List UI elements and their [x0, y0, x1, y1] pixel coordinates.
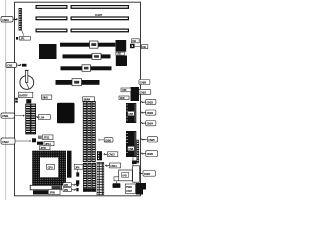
svg-text:CN23: CN23 [147, 111, 154, 115]
jumper JP1 [16, 36, 31, 40]
callout L6 [141, 137, 158, 142]
label under chip U1 [116, 52, 125, 56]
jumper dots [76, 183, 78, 186]
chip U2 [116, 56, 127, 67]
svg-text:CN5: CN5 [120, 96, 125, 100]
svg-text:KB: KB [142, 45, 146, 49]
jumper JP6 [76, 172, 79, 176]
SIMM socket 2 [88, 101, 91, 161]
svg-text:CN21: CN21 [140, 90, 147, 94]
PCI slot A [60, 43, 115, 47]
svg-text:JP13: JP13 [43, 136, 49, 140]
connector above cache [26, 99, 31, 103]
callout L5 [141, 121, 156, 126]
kb bios U7 [119, 170, 133, 181]
callout CN1 top left [1, 17, 18, 23]
ISA slot 2 left segment [36, 16, 68, 20]
label JP8 [49, 190, 61, 195]
SIMM socket 5 [88, 163, 91, 191]
callout CN2 left mid [6, 63, 22, 68]
jumper block pins above [97, 151, 102, 160]
svg-text:CN26: CN26 [147, 152, 154, 156]
jumper JP2 [32, 138, 36, 142]
svg-text:CN17: CN17 [126, 189, 132, 193]
label CN15 [125, 184, 135, 194]
callout L7 [141, 151, 158, 157]
connector on bar 6 [72, 79, 82, 86]
svg-text:CN14: CN14 [110, 164, 117, 168]
label kb ext [135, 45, 148, 49]
label JP5 [74, 164, 83, 172]
svg-text:JP14: JP14 [45, 142, 51, 146]
callout CN16 [99, 138, 113, 143]
svg-text:U10: U10 [117, 52, 122, 56]
callout L2 [139, 89, 151, 94]
port connector P1 [126, 103, 136, 123]
ISA slot 1 right segment [71, 5, 130, 9]
label above CPU [40, 146, 51, 150]
svg-text:BATRY: BATRY [19, 93, 28, 97]
wire down from port column [132, 157, 134, 166]
box U8 [133, 166, 140, 182]
label CN14 [105, 163, 121, 168]
svg-text:SIM1: SIM1 [42, 95, 48, 99]
port connector P2 [126, 131, 136, 157]
chipset U5 [57, 103, 75, 124]
connector CN on slot A [90, 41, 99, 48]
callout L8 [139, 171, 156, 177]
CPU bottom white bar [30, 185, 61, 190]
edge pins [15, 98, 18, 103]
SIMM socket 1 [83, 101, 86, 161]
svg-text:CN20: CN20 [140, 81, 147, 85]
label SIMM bank A [42, 95, 52, 99]
svg-text:CN13: CN13 [108, 153, 115, 157]
callout L1 [139, 80, 150, 85]
callout L3 [141, 99, 156, 104]
callout CN3 left [1, 113, 25, 118]
jumper block grid [97, 162, 104, 195]
slot bar 6 [56, 80, 100, 85]
cache socket 1 [26, 104, 31, 134]
pin strip right of ports [137, 140, 139, 163]
jumper block small [132, 161, 137, 165]
speaker [113, 177, 121, 188]
label CN13 [104, 152, 118, 157]
cache socket 2 [31, 104, 36, 134]
callout JP8 [63, 183, 76, 187]
label JP4 [37, 141, 54, 146]
svg-text:CN2: CN2 [7, 64, 13, 68]
VRM bar right of CPU [67, 151, 72, 178]
svg-text:CN16: CN16 [105, 138, 111, 142]
callout JP9 [63, 188, 76, 192]
svg-text:SIMM: SIMM [83, 98, 90, 102]
keyboard connector [132, 39, 140, 43]
label U4 [36, 115, 50, 120]
PCI slot B [63, 54, 111, 58]
chip U1 [116, 40, 127, 52]
kb din [130, 44, 135, 48]
header J1 [19, 8, 25, 37]
svg-text:CN27: CN27 [144, 172, 151, 176]
chip U3 [39, 44, 57, 59]
simm bank end cap [83, 189, 95, 192]
svg-text:JP15: JP15 [40, 146, 46, 150]
slot bar 5 [61, 66, 112, 70]
label CN5 port column [119, 96, 129, 100]
bottom black bar [33, 190, 48, 194]
connector on bar 5 [82, 65, 91, 72]
connector CN on slot B [92, 53, 101, 59]
board outline [15, 2, 141, 196]
svg-text:CPU: CPU [48, 165, 53, 169]
svg-text:16 BIT: 16 BIT [95, 13, 102, 17]
svg-text:CN10: CN10 [2, 18, 9, 22]
label U6 [121, 88, 131, 92]
svg-text:JP20: JP20 [49, 191, 55, 195]
callout CN4 left [1, 138, 32, 144]
svg-text:CN8: CN8 [128, 147, 133, 151]
ISA slot 1 left segment [36, 5, 68, 9]
chip U6 near edge [131, 87, 140, 101]
svg-text:CN22: CN22 [147, 100, 154, 104]
scan fold line [5, 0, 7, 200]
CPU socket [32, 151, 66, 186]
battery [20, 70, 34, 89]
svg-text:PWR: PWR [126, 185, 132, 189]
ISA slot 2 right segment [71, 16, 130, 20]
connector at CN2 [22, 64, 27, 67]
ISA slot 3 right segment [71, 29, 130, 33]
battery label [19, 92, 33, 98]
ISA slot 3 left segment [36, 29, 68, 33]
power connector [136, 183, 146, 195]
svg-text:U30: U30 [122, 88, 127, 92]
label JP3 [38, 135, 53, 140]
svg-text:CN24: CN24 [147, 122, 154, 126]
callout L4 [141, 110, 156, 115]
svg-text:CN7: CN7 [128, 112, 133, 116]
svg-text:CN12: CN12 [2, 140, 9, 144]
svg-text:KB: KB [132, 39, 136, 43]
SIMM socket 4 [83, 163, 86, 191]
svg-text:CN11: CN11 [2, 114, 9, 118]
label SIMM bank B [83, 97, 95, 102]
SIMM socket 6 [92, 163, 95, 191]
svg-text:CN25: CN25 [148, 138, 155, 142]
svg-text:U14: U14 [39, 116, 44, 120]
jumper JP7 [76, 180, 79, 184]
SIMM socket 3 [92, 101, 95, 161]
